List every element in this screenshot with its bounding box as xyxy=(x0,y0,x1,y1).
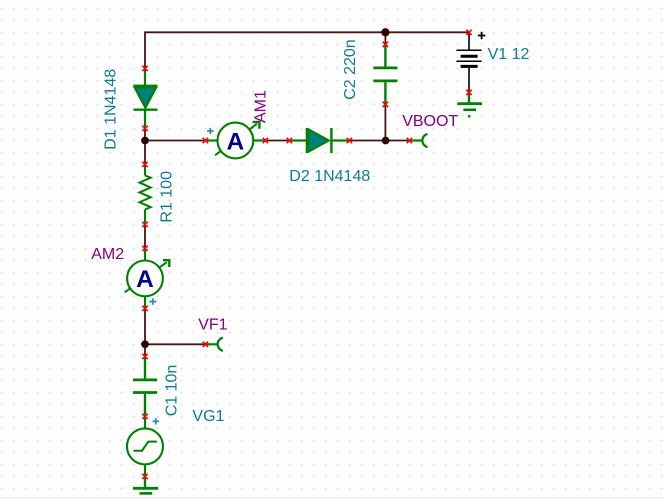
svg-text:D1 1N4148: D1 1N4148 xyxy=(102,69,119,150)
svg-text:VF1: VF1 xyxy=(198,317,227,334)
svg-text:R1 100: R1 100 xyxy=(158,171,175,223)
svg-text:A: A xyxy=(227,128,245,155)
svg-text:VBOOT: VBOOT xyxy=(402,113,458,130)
svg-text:D2 1N4148: D2 1N4148 xyxy=(289,168,370,185)
svg-text:V1 12: V1 12 xyxy=(488,46,530,63)
svg-text:AM2: AM2 xyxy=(91,246,124,263)
svg-text:C2 220n: C2 220n xyxy=(342,39,359,100)
svg-text:C1 10n: C1 10n xyxy=(163,365,180,417)
svg-text:AM1: AM1 xyxy=(252,90,269,123)
svg-text:VG1: VG1 xyxy=(192,408,224,425)
svg-text:A: A xyxy=(136,266,154,293)
